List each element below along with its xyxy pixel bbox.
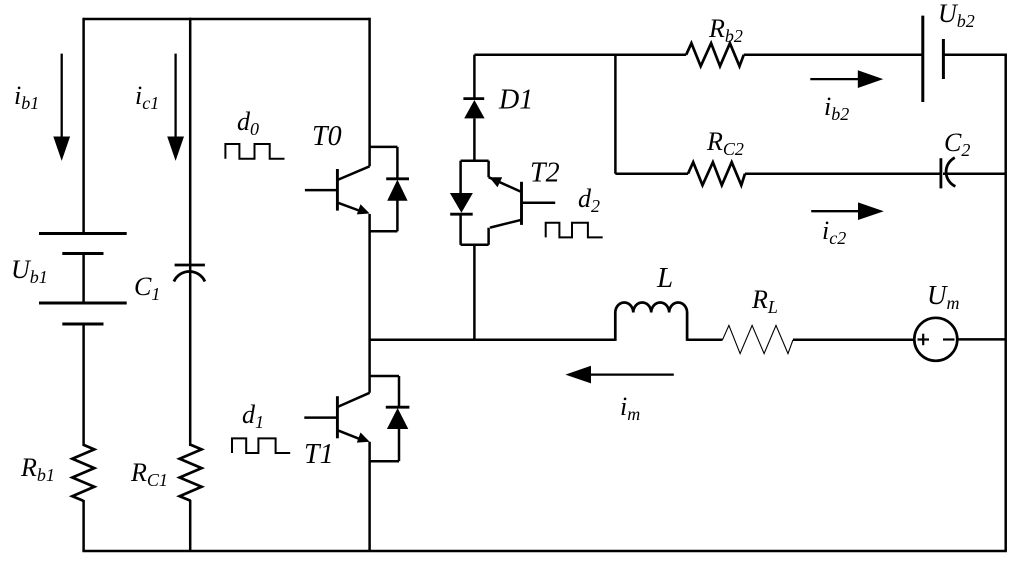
svg-text:T0: T0 — [312, 121, 342, 152]
svg-text:L: L — [656, 262, 673, 294]
svg-text:T1: T1 — [304, 439, 334, 470]
svg-text:D1: D1 — [498, 85, 533, 116]
svg-text:T2: T2 — [530, 158, 560, 189]
